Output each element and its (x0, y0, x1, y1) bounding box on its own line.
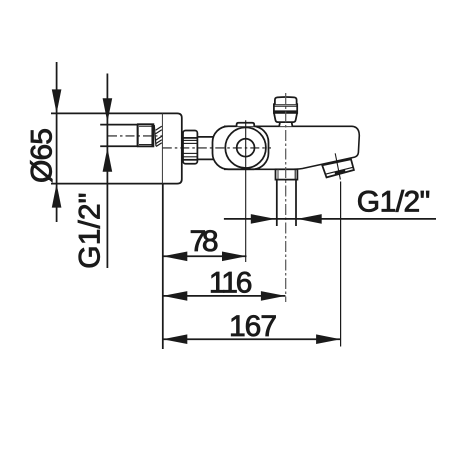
hex nut (183, 131, 197, 164)
diverter knob lower section (274, 113, 297, 122)
dimension line 78 (163, 255, 247, 257)
arrow G1/2 left top (down) (103, 98, 113, 122)
hose connector pipe / extension lines (276, 180, 278, 226)
svg-text:78: 78 (190, 225, 219, 258)
wall reference extension line (162, 113, 164, 349)
dimension line G1/2 left vertical (106, 74, 108, 269)
faucet body (224, 126, 359, 169)
arrow right-pointing at hose left (251, 214, 275, 224)
dimension line 167 (163, 338, 341, 340)
knob / hose axis centerline (285, 93, 287, 302)
valve boss (213, 126, 269, 169)
valve vertical centerline / ext 78 (245, 120, 247, 262)
dimension line 116 (163, 295, 286, 297)
aerator on spout (322, 159, 354, 177)
svg-text:Ø65: Ø65 (26, 128, 59, 183)
diverter knob mid band (274, 104, 297, 113)
arrow left-pointing at hose right (297, 214, 322, 224)
valve inner circle (237, 139, 255, 157)
centerline faucet axis (163, 147, 271, 149)
wall flange (escutcheon O65) (163, 113, 182, 183)
svg-text:116: 116 (209, 266, 253, 299)
hose connector collar (276, 169, 298, 179)
thread hatch into wall (top group) (156, 126, 162, 146)
extension line bottom of flange (O65 lower) (51, 183, 163, 185)
svg-text:G1/2": G1/2" (357, 186, 431, 219)
arrow O65 top (down) (52, 89, 62, 113)
thread block on pipe end (138, 124, 154, 146)
dimension line O65 vertical (56, 62, 58, 222)
thread chamfer edge (154, 125, 156, 146)
stop tab above valve (237, 123, 255, 127)
centerline wall pipe axis (108, 135, 163, 137)
valve outer circle (225, 127, 266, 168)
thread hatch into wall (bottom group) (156, 136, 162, 140)
union tailpiece (197, 136, 214, 138)
aerator axis (335, 153, 340, 179)
arrow G1/2 left bottom (up) (103, 148, 113, 172)
wall supply pipe (100, 124, 137, 126)
diverter knob neck (279, 122, 292, 126)
svg-text:167: 167 (229, 310, 277, 343)
extension line 167 right (340, 182, 342, 347)
svg-text:G1/2": G1/2" (74, 193, 107, 269)
extension line top of flange (O65 upper) (51, 112, 163, 114)
diverter knob cap (275, 97, 297, 104)
arrow O65 bottom (up) (52, 184, 62, 208)
dimension line G1/2 right (224, 218, 436, 220)
